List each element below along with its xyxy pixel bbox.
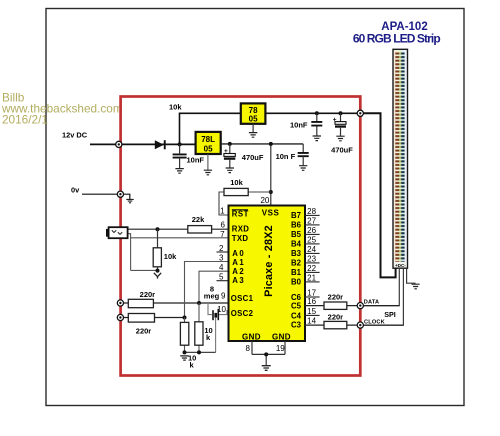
svg-text:22k: 22k [192,215,205,224]
svg-text:220r: 220r [328,293,344,302]
pin 24 stub [304,252,320,254]
capacitor 470uF (logic rail) [224,144,264,168]
capacitor 10nF (logic rail) [276,144,309,166]
svg-text:12v DC: 12v DC [62,131,88,140]
ground serial (arrow) [154,271,161,279]
regulator 78L05 [196,132,221,154]
resistor 220r input A [128,290,155,307]
svg-text:B3: B3 [291,249,302,258]
LED strip DC marking [394,262,407,268]
wire 78L05 ground lead [207,154,209,170]
svg-text:3: 3 [219,254,224,263]
svg-text:220r: 220r [328,312,344,321]
terminal 12V [116,141,122,147]
ground 10nF strip rail [313,136,321,141]
svg-text:B2: B2 [291,258,302,267]
wire strip ground [407,268,416,283]
svg-text:B5: B5 [291,230,302,239]
resistor 10k A2 pulldown [195,303,213,352]
svg-text:0v: 0v [71,185,80,194]
svg-text:A3: A3 [232,276,245,285]
svg-text:9: 9 [221,291,226,300]
svg-text:19: 19 [276,344,285,353]
svg-text:A2: A2 [232,267,245,276]
wire DATA from strip [360,268,399,305]
svg-text:470uF: 470uF [331,145,353,154]
ground 0v [126,199,133,202]
svg-text:7: 7 [220,230,225,239]
border frame [46,9,464,406]
capacitor 10nF (12V input) [173,144,205,168]
svg-text:23: 23 [307,254,316,263]
node logic rail VSS [269,142,273,146]
svg-text:10n F: 10n F [276,152,296,161]
svg-text:C3: C3 [291,321,302,330]
svg-text:78: 78 [249,106,258,115]
pin 22 stub [304,271,320,273]
svg-text:10nF: 10nF [187,155,205,164]
wire 220r input B [117,317,184,319]
pin 2 stub [217,251,229,253]
chip pin name RST [232,209,249,218]
pin 21 stub [304,281,320,283]
terminal DATA [357,303,363,309]
terminal CLOCK [357,322,363,328]
wire 0v [82,194,130,199]
svg-text:16: 16 [307,297,316,306]
node A2 junction [197,301,201,305]
svg-text:6: 6 [221,220,226,229]
pin 17 stub [304,296,320,298]
resistor 220r DATA [324,293,347,310]
svg-text:220r: 220r [140,290,156,299]
terminal input B [117,314,123,320]
wire A2 [199,271,229,303]
wire VSS supply drop [270,144,272,206]
ground pulldowns [180,356,189,360]
resistor 10k serial pulldown [153,229,177,270]
pin 15 stub [304,314,320,316]
svg-text:05: 05 [204,144,213,153]
svg-text:10k: 10k [164,252,177,261]
svg-text:B1: B1 [291,268,302,277]
LED strip LEDs (60 rows) [394,52,407,263]
ground 10nF input [175,169,183,174]
diode D1 [155,140,166,149]
terminal strip 5V [357,110,363,116]
svg-text:A1: A1 [232,258,245,267]
node rail junction 470uF [339,111,343,115]
svg-text:RST: RST [232,209,249,218]
svg-text:24: 24 [307,245,316,254]
pin 28 stub [304,214,320,216]
node A1 junction [183,316,187,320]
ground 7805 [249,133,257,138]
ground strip [412,284,420,289]
red controller boundary box [121,97,361,376]
node RXD junction [156,227,160,231]
svg-text:78L: 78L [201,135,215,144]
svg-text:470uF: 470uF [242,153,264,162]
svg-text:10k: 10k [230,178,243,187]
svg-text:B4: B4 [291,239,302,248]
svg-text:C4: C4 [291,311,302,320]
resistor 220r CLOCK [324,312,347,328]
svg-text:10nF: 10nF [290,121,308,130]
svg-text:C5: C5 [291,302,302,311]
svg-text:CLOCK: CLOCK [364,319,385,325]
svg-text:20: 20 [260,196,269,205]
ground 78L05 [204,170,212,175]
pin 25 stub [304,243,320,245]
svg-text:2016/2/1: 2016/2/1 [2,113,48,127]
svg-text:28: 28 [307,207,316,216]
connector serial jack [106,227,128,238]
svg-text:22: 22 [307,264,316,273]
regulator 7805 [241,103,266,123]
svg-text:GND: GND [272,332,291,341]
svg-text:10k: 10k [169,103,182,112]
capacitor 470uF (strip rail) [331,113,353,154]
pin 23 stub [304,262,320,264]
svg-text:RXD: RXD [232,224,249,233]
node GND junction [264,352,268,356]
resistor 22k [188,215,212,233]
svg-text:14: 14 [307,317,316,326]
ground 470uF strip rail [336,136,344,141]
wire +5V feed to LED strip [360,113,395,277]
svg-text:Picaxe - 28X2: Picaxe - 28X2 [263,225,275,297]
resistor 220r input B [128,314,154,336]
svg-text:21: 21 [307,273,316,282]
svg-text:B0: B0 [291,277,302,286]
svg-text:SPI: SPI [384,310,396,319]
svg-text:OSC2: OSC2 [231,309,254,318]
svg-text:8: 8 [245,344,250,353]
svg-text:B7: B7 [291,211,301,220]
node VSS 10k junction [269,190,273,194]
resistor 10k A1 pulldown [180,318,188,353]
wire pulldown ground rail [185,351,216,353]
svg-text:220r: 220r [136,326,152,335]
ground chip [262,366,271,371]
op IC U1 Picaxe 28X2 [229,206,306,342]
svg-text:4: 4 [219,263,224,272]
wire OSC1 / 220r input A [117,302,228,304]
svg-text:GND: GND [242,332,261,341]
wire A1 [185,262,229,318]
pin 5 stub [217,280,229,282]
svg-text:OSC1: OSC1 [231,294,254,303]
wire TXD [128,234,229,271]
wire 12V input [90,143,196,145]
node 12V junction [178,142,182,146]
pin 27 stub [304,224,320,226]
capacitor 10nF (strip rail) [290,113,322,135]
terminal input A [117,300,123,306]
node rail junction 10nF [315,111,319,115]
svg-text:TXD: TXD [232,234,249,243]
svg-text:26: 26 [307,226,316,235]
wire 12V riser to 7805 [180,113,241,144]
node serial ground junction [156,269,160,273]
pin 26 stub [304,233,320,235]
resistor 10k RST pull-up [219,178,271,215]
svg-text:15: 15 [307,307,316,316]
wire 5V logic rail [221,143,304,145]
svg-text:25: 25 [307,235,316,244]
ground 10nF logic [299,166,307,171]
svg-text:10: 10 [217,305,226,314]
svg-text:VSS: VSS [262,208,280,217]
wire RXD [128,228,229,230]
ground 470uF logic [226,168,234,173]
wire GND pins 8 and 19 [252,341,285,365]
svg-text:DATA: DATA [364,300,380,306]
svg-text:27: 27 [307,216,316,225]
wire CLOCK from strip [360,268,403,325]
svg-text:+DC-: +DC- [395,263,406,268]
svg-text:1: 1 [220,206,225,215]
svg-text:60 RGB LED Strip: 60 RGB LED Strip [353,32,441,46]
wire 7805 ground lead [252,124,254,133]
resonator 8 meg [208,303,229,352]
svg-text:meg: meg [204,292,220,301]
wire C5 DATA [304,305,399,307]
wire 5V rail to strip [265,112,360,114]
title label APA-102 [353,21,441,46]
svg-text:B6: B6 [291,220,302,229]
LED strip body [393,49,408,268]
svg-text:05: 05 [249,115,258,124]
node logic rail 470uF [228,142,232,146]
terminal 0v [117,191,123,197]
watermark text [1,90,123,126]
wire C3 CLOCK [304,324,403,326]
